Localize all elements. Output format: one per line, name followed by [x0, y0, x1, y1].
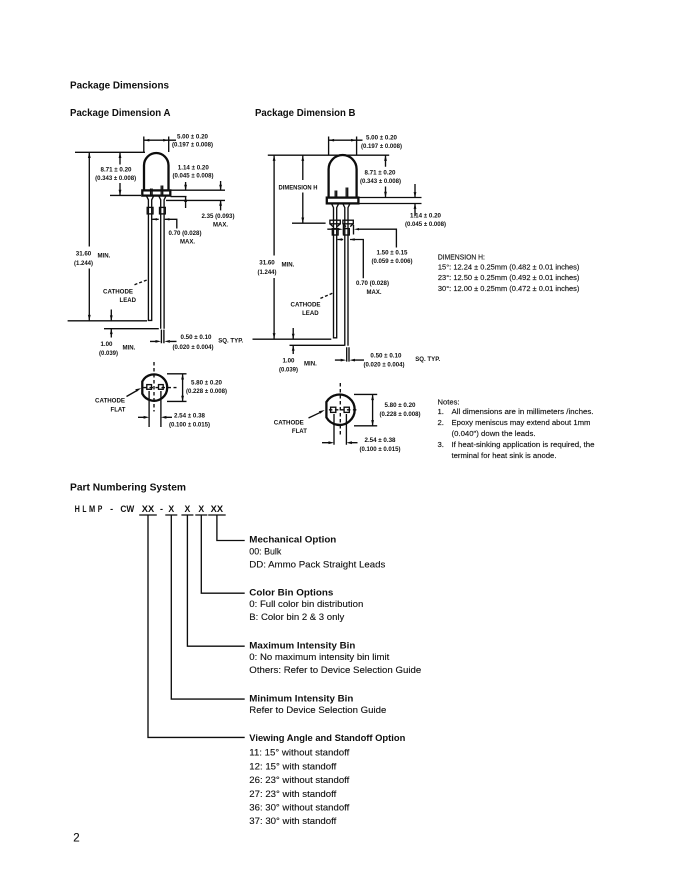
svg-text:36: 30° without standoff: 36: 30° without standoff	[249, 803, 349, 814]
svg-text:1.00: 1.00	[101, 341, 113, 348]
svg-text:MAX.: MAX.	[213, 221, 228, 228]
svg-text:L: L	[82, 504, 86, 514]
svg-text:X: X	[168, 504, 174, 514]
svg-text:Minimum Intensity Bin: Minimum Intensity Bin	[249, 693, 353, 704]
svg-text:15°: 12.24 ± 0.25mm (0.482 ± 0: 15°: 12.24 ± 0.25mm (0.482 ± 0.01 inches…	[438, 262, 580, 271]
svg-text:1.: 1.	[438, 407, 444, 416]
svg-text:(0.040") down the leads.: (0.040") down the leads.	[452, 429, 536, 438]
svg-text:1.14 ± 0.20: 1.14 ± 0.20	[410, 213, 441, 220]
svg-text:2.35 (0.093): 2.35 (0.093)	[202, 213, 235, 220]
svg-text:0.70 (0.028): 0.70 (0.028)	[169, 230, 202, 237]
svg-text:(0.100 ± 0.015): (0.100 ± 0.015)	[360, 446, 401, 453]
svg-text:(0.343 ± 0.008): (0.343 ± 0.008)	[360, 178, 401, 185]
svg-text:(0.197 ± 0.008): (0.197 ± 0.008)	[172, 142, 213, 149]
svg-text:0.50 ± 0.10: 0.50 ± 0.10	[370, 352, 401, 359]
svg-text:(0.100 ± 0.015): (0.100 ± 0.015)	[169, 422, 210, 429]
svg-text:5.80 ± 0.20: 5.80 ± 0.20	[385, 402, 416, 409]
svg-text:0.70 (0.028): 0.70 (0.028)	[356, 280, 389, 287]
svg-text:SQ. TYP.: SQ. TYP.	[218, 337, 243, 344]
svg-text:LEAD: LEAD	[120, 297, 137, 304]
svg-text:DIMENSION H: DIMENSION H	[279, 184, 318, 191]
svg-text:(0.228 ± 0.008): (0.228 ± 0.008)	[380, 411, 421, 418]
svg-text:Color Bin Options: Color Bin Options	[249, 587, 333, 598]
svg-text:Package Dimension A: Package Dimension A	[70, 108, 171, 119]
svg-text:31.60: 31.60	[259, 259, 275, 266]
svg-text:(0.045 ± 0.008): (0.045 ± 0.008)	[405, 221, 446, 228]
svg-text:30°: 12.00 ± 0.25mm (0.472 ± 0: 30°: 12.00 ± 0.25mm (0.472 ± 0.01 inches…	[438, 284, 580, 293]
svg-text:Epoxy meniscus may extend abou: Epoxy meniscus may extend about 1mm	[452, 418, 591, 427]
svg-text:0.50 ± 0.10: 0.50 ± 0.10	[181, 334, 212, 341]
svg-text:00: Bulk: 00: Bulk	[249, 546, 281, 557]
svg-text:-: -	[160, 504, 163, 514]
svg-text:X: X	[198, 504, 204, 514]
svg-text:Part Numbering System: Part Numbering System	[70, 483, 186, 494]
svg-text:MIN.: MIN.	[282, 262, 295, 269]
svg-text:12: 15° with standoff: 12: 15° with standoff	[249, 761, 336, 772]
svg-text:1.00: 1.00	[283, 357, 295, 364]
svg-text:5.00 ± 0.20: 5.00 ± 0.20	[177, 133, 208, 140]
svg-text:LEAD: LEAD	[302, 310, 319, 317]
svg-text:23°: 12.50 ± 0.25mm (0.492 ± 0: 23°: 12.50 ± 0.25mm (0.492 ± 0.01 inches…	[438, 273, 580, 282]
svg-text:2.54 ± 0.38: 2.54 ± 0.38	[174, 413, 205, 420]
svg-text:MIN.: MIN.	[98, 253, 111, 260]
svg-text:CATHODE: CATHODE	[274, 419, 305, 426]
svg-text:1.14 ± 0.20: 1.14 ± 0.20	[178, 165, 209, 172]
svg-text:(0.343 ± 0.008): (0.343 ± 0.008)	[95, 175, 136, 182]
svg-text:2: 2	[73, 832, 79, 844]
svg-text:FLAT: FLAT	[292, 428, 307, 435]
svg-text:Viewing Angle and Standoff Opt: Viewing Angle and Standoff Option	[249, 733, 405, 744]
svg-text:26: 23° without standoff: 26: 23° without standoff	[249, 775, 349, 786]
svg-text:8.71 ± 0.20: 8.71 ± 0.20	[101, 167, 132, 174]
svg-text:(1.244): (1.244)	[74, 260, 93, 267]
svg-text:CATHODE: CATHODE	[103, 289, 134, 296]
svg-text:0: Full color bin distribution: 0: Full color bin distribution	[249, 599, 363, 610]
svg-text:(1.244): (1.244)	[258, 269, 277, 276]
svg-text:27: 23° with standoff: 27: 23° with standoff	[249, 789, 336, 800]
svg-text:MIN.: MIN.	[304, 360, 317, 367]
svg-text:(0.059 ± 0.006): (0.059 ± 0.006)	[372, 258, 413, 265]
svg-text:-: -	[110, 504, 113, 514]
svg-text:(0.039): (0.039)	[279, 366, 298, 373]
svg-text:MIN.: MIN.	[123, 344, 136, 351]
svg-text:8.71 ± 0.20: 8.71 ± 0.20	[365, 170, 396, 177]
svg-text:DIMENSION H:: DIMENSION H:	[438, 252, 485, 261]
svg-text:CATHODE: CATHODE	[291, 302, 322, 309]
svg-text:terminal for heat sink is anod: terminal for heat sink is anode.	[452, 451, 557, 460]
svg-text:(0.020 ± 0.004): (0.020 ± 0.004)	[173, 344, 214, 351]
svg-text:XX: XX	[142, 504, 154, 514]
svg-text:Package Dimension B: Package Dimension B	[255, 108, 356, 119]
svg-text:All dimensions are in millimet: All dimensions are in millimeters /inche…	[452, 407, 594, 416]
svg-text:(0.045 ± 0.008): (0.045 ± 0.008)	[173, 173, 214, 180]
svg-text:B: Color bin 2 & 3 only: B: Color bin 2 & 3 only	[249, 612, 344, 623]
svg-text:(0.039): (0.039)	[99, 350, 118, 357]
svg-text:1.50 ± 0.15: 1.50 ± 0.15	[377, 249, 408, 256]
svg-text:M: M	[89, 504, 95, 514]
svg-text:(0.020 ± 0.004): (0.020 ± 0.004)	[364, 362, 405, 369]
svg-text:31.60: 31.60	[76, 250, 92, 257]
svg-text:Maximum Intensity Bin: Maximum Intensity Bin	[249, 640, 355, 651]
svg-text:Mechanical Option: Mechanical Option	[249, 535, 336, 546]
svg-text:CATHODE: CATHODE	[95, 398, 126, 405]
svg-text:MAX.: MAX.	[367, 289, 382, 296]
svg-text:2.54 ± 0.38: 2.54 ± 0.38	[365, 437, 396, 444]
svg-text:XX: XX	[211, 504, 223, 514]
svg-text:5.80 ± 0.20: 5.80 ± 0.20	[191, 379, 222, 386]
svg-text:Package Dimensions: Package Dimensions	[70, 81, 170, 92]
svg-text:2.: 2.	[438, 418, 444, 427]
svg-text:0: No maximum intensity bin li: 0: No maximum intensity bin limit	[249, 652, 389, 663]
svg-text:37: 30° with standoff: 37: 30° with standoff	[249, 816, 336, 827]
svg-text:3.: 3.	[438, 440, 444, 449]
svg-text:11: 15° without standoff: 11: 15° without standoff	[249, 748, 349, 759]
svg-text:Notes:: Notes:	[438, 397, 460, 406]
svg-text:H: H	[75, 504, 80, 514]
svg-text:Others: Refer to Device Select: Others: Refer to Device Selection Guide	[249, 665, 421, 676]
svg-text:FLAT: FLAT	[111, 407, 126, 414]
svg-text:Refer to Device Selection Guid: Refer to Device Selection Guide	[249, 705, 386, 716]
svg-text:X: X	[185, 504, 191, 514]
svg-text:5.00 ± 0.20: 5.00 ± 0.20	[366, 134, 397, 141]
svg-text:(0.197 ± 0.008): (0.197 ± 0.008)	[361, 143, 402, 150]
svg-text:(0.228 ± 0.008): (0.228 ± 0.008)	[186, 388, 227, 395]
svg-text:MAX.: MAX.	[180, 239, 195, 246]
svg-text:CW: CW	[120, 504, 134, 514]
svg-text:SQ. TYP.: SQ. TYP.	[415, 356, 440, 363]
svg-text:DD: Ammo Pack Straight Leads: DD: Ammo Pack Straight Leads	[249, 559, 385, 570]
svg-text:P: P	[98, 504, 103, 514]
svg-text:If heat-sinking application is: If heat-sinking application is required,…	[452, 440, 595, 449]
